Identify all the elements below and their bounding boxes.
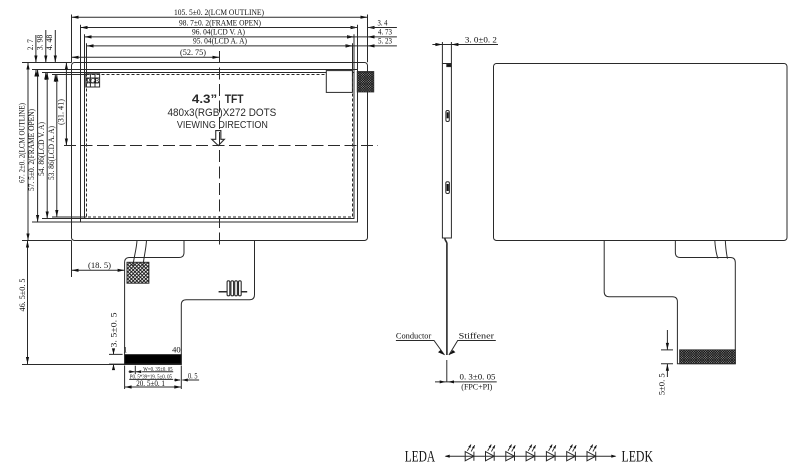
svg-text:(52. 75): (52. 75): [180, 48, 206, 57]
svg-text:53. 86(LCD A. A): 53. 86(LCD A. A): [47, 126, 56, 180]
svg-text:5±0. 5: 5±0. 5: [658, 373, 667, 395]
wire trace 1 panel to stiffener: [133, 240, 137, 266]
Conductor label with leader: [396, 332, 445, 355]
dim (18.5): [72, 261, 125, 272]
left extension lines: [22, 63, 87, 241]
svg-text:54. 86(LCD V. A): 54. 86(LCD V. A): [37, 122, 46, 176]
svg-text:LEDK: LEDK: [622, 448, 654, 465]
dim 2.7: [35, 35, 37, 76]
svg-text:3. 0±0. 2: 3. 0±0. 2: [465, 36, 497, 45]
svg-text:5. 23: 5. 23: [378, 37, 392, 46]
white contact ledge box top-right: [326, 71, 352, 93]
dim (31.41) vertical: [56, 63, 68, 146]
wire: [446, 455, 616, 457]
back hatched stiffener bar: [680, 350, 736, 364]
hatched stiffener top-right: [357, 72, 373, 92]
wire trace 2 panel to stiffener: [143, 240, 147, 266]
svg-text:105. 5±0. 2(LCM OUTLINE): 105. 5±0. 2(LCM OUTLINE): [174, 8, 264, 17]
svg-text:95. 04(LCD A. A): 95. 04(LCD A. A): [193, 37, 247, 46]
dim W=0.35: [129, 366, 174, 374]
extension lines top: [72, 15, 368, 75]
dim (52.75): [72, 48, 220, 59]
dim 0.5 right of connector: [174, 366, 199, 390]
svg-text:(18. 5): (18. 5): [88, 261, 111, 270]
dim 57.5 FRAME OPEN vertical: [27, 70, 39, 223]
svg-text:96. 04(LCD V. A): 96. 04(LCD V. A): [192, 28, 245, 37]
dim 54.86 LCD V.A vertical: [37, 73, 49, 219]
hollow down arrow: [212, 131, 225, 146]
back FPC outline: [604, 240, 735, 363]
FPC outline front view: [125, 240, 255, 364]
dim 3.98: [45, 30, 47, 80]
dim 5.23: [346, 37, 397, 48]
centerline segment through arrow: [219, 132, 221, 145]
svg-text:0. 3±0. 05: 0. 3±0. 05: [460, 373, 496, 382]
LCD A.A rect (dashed): [87, 75, 353, 218]
svg-text:0. 5: 0. 5: [188, 372, 198, 381]
svg-text:Conductor: Conductor: [396, 332, 432, 341]
svg-text:57. 5±0. 2(FRAME OPEN): 57. 5±0. 2(FRAME OPEN): [27, 109, 36, 191]
svg-text:3. 98: 3. 98: [36, 35, 45, 51]
back wire trace 2: [725, 240, 727, 258]
dim 105.5 LCM OUTLINE: [72, 8, 368, 19]
svg-text:4. 48: 4. 48: [45, 35, 54, 51]
dim 67.2 LCM OUTLINE vertical: [18, 63, 30, 241]
detail bump 2: [446, 182, 450, 194]
svg-text:3. 4: 3. 4: [378, 18, 389, 27]
component symbol (4-bar) on FPC: [219, 281, 248, 296]
horizontal centerline: [64, 145, 378, 147]
svg-text:3. 5±0. 5: 3. 5±0. 5: [110, 313, 119, 348]
dim 95.04 LCD A.A: [87, 37, 353, 48]
svg-text:4.3”: 4.3”: [192, 94, 217, 106]
svg-text:RGB: RGB: [86, 78, 99, 86]
RGB pixel marker box: [86, 74, 100, 87]
LCM outline rect: [72, 63, 368, 241]
dim 20.5: [125, 366, 182, 390]
back wire trace 1: [715, 240, 718, 258]
dim 4.48: [54, 30, 56, 82]
svg-text:TFT: TFT: [225, 94, 244, 106]
LED D2: [486, 445, 496, 461]
frame open rect: [81, 70, 358, 223]
side view body: [442, 64, 451, 239]
dim 0.3 FPC thickness: [435, 373, 497, 392]
svg-text:98. 7±0. 2(FRAME OPEN): 98. 7±0. 2(FRAME OPEN): [179, 18, 261, 27]
dim P0.5*39: [129, 375, 173, 381]
LED D4: [526, 445, 536, 461]
LED D1: [465, 445, 475, 461]
dim 96.04 LCD V.A: [85, 28, 355, 39]
Stiffener label with leader: [449, 332, 496, 355]
connector black bar: [125, 355, 182, 364]
LED D5: [546, 445, 556, 461]
dim 3.0 thickness: [432, 36, 498, 64]
svg-text:LEDA: LEDA: [405, 448, 436, 465]
svg-text:(FPC+PI): (FPC+PI): [461, 383, 492, 392]
svg-text:67. 2±0. 2(LCM OUTLINE): 67. 2±0. 2(LCM OUTLINE): [18, 103, 27, 183]
dim 46.5 vertical: [18, 241, 29, 365]
svg-text:480x3(RGB)X272 DOTS: 480x3(RGB)X272 DOTS: [168, 107, 277, 119]
black tape mark top: [447, 64, 451, 66]
LED D3: [506, 445, 516, 461]
dim 5±0.5: [658, 330, 674, 395]
LED D6: [567, 445, 577, 461]
dim 3.4: [351, 18, 397, 29]
FPC side line: [445, 238, 447, 355]
back view outline: [494, 64, 788, 241]
svg-text:VIEWING DIRECTION: VIEWING DIRECTION: [177, 119, 268, 131]
extension for 46.5 bottom: [22, 241, 125, 365]
svg-text:46. 5±0. 5: 46. 5±0. 5: [18, 279, 27, 312]
svg-text:2. 7: 2. 7: [26, 39, 35, 50]
svg-text:W=0. 35±0. 05: W=0. 35±0. 05: [143, 367, 172, 373]
svg-text:20. 5±0. 1: 20. 5±0. 1: [136, 379, 165, 388]
dim 3.5 vertical: [109, 313, 125, 371]
LED D7: [587, 445, 597, 461]
dim 4.73: [347, 28, 397, 39]
svg-text:40: 40: [172, 345, 181, 354]
svg-text:(31. 41): (31. 41): [56, 99, 65, 125]
svg-text:1: 1: [123, 345, 127, 354]
vertical centerline: [219, 51, 221, 245]
dim 53.86 LCD A.A vertical: [47, 75, 59, 218]
FPC tail lower segment: [446, 360, 448, 382]
LCD V.A rect: [85, 73, 355, 219]
svg-text:Stiffener: Stiffener: [459, 332, 495, 341]
svg-text:4. 73: 4. 73: [378, 28, 392, 37]
detail bump 1: [446, 111, 449, 122]
hatched stiffener square on FPC: [127, 262, 149, 283]
dim 98.7 FRAME OPEN: [81, 18, 358, 29]
top-left small offset dims 2.7 / 3.98 / 4.48: [26, 30, 57, 82]
